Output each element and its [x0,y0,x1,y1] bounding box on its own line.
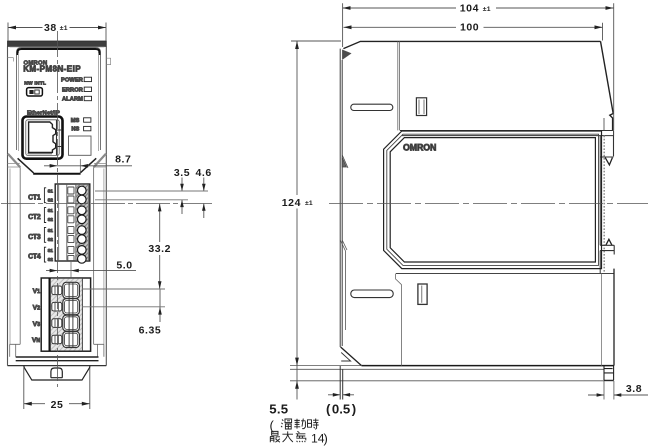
svg-text:5.0: 5.0 [116,259,132,271]
upper DIN slider slot [351,104,393,110]
RJ45 connector [23,117,63,159]
svg-text:100: 100 [460,22,479,34]
svg-text:±1: ±1 [305,200,313,207]
svg-text:CT1: CT1 [28,194,41,201]
svg-text:S1: S1 [48,228,54,233]
CT2 label [28,208,53,223]
side bottom edge [362,365,615,367]
door rim inner line [390,138,595,262]
svg-text:4.6: 4.6 [195,167,211,179]
svg-text:5.5: 5.5 [269,402,288,417]
svg-text:VN: VN [32,337,41,344]
dim 5.0 [46,259,136,278]
bottom ledge [396,273,614,275]
CT screw circles [78,186,87,263]
svg-text:8.7: 8.7 [115,153,131,165]
rear bottom clip tab [604,366,614,381]
svg-text:): ) [324,431,328,446]
front mid recess walls [10,167,104,344]
V terminal block [41,278,90,351]
svg-text:V3: V3 [33,321,41,328]
DIN rail long lines [290,369,614,381]
upper small vent rect [416,98,426,116]
sliding note text [270,418,328,446]
dim 4.6 [195,167,211,218]
side top edge with chamfer [342,41,600,59]
svg-text:NS: NS [71,127,79,133]
front bezel top edge [10,47,105,151]
dim 124 +-1 left of side view [282,41,362,366]
bottom tray [10,344,104,360]
svg-text:124: 124 [282,197,301,209]
hook2 bottom DIN hook [600,239,614,254]
svg-text:±1: ±1 [483,6,491,13]
front body side seam details [8,58,111,65]
door outer outline [384,131,602,269]
svg-text:POWER: POWER [61,78,83,84]
side front edge step detail lower [340,240,347,330]
SIDE-VIEW [290,41,648,381]
CT slot rows [68,187,74,261]
svg-text:V2: V2 [33,304,41,311]
svg-text:6.35: 6.35 [139,325,162,337]
top shelf ledge [400,131,614,136]
rear wall between hooks [599,157,601,245]
svg-text:S2: S2 [48,197,54,202]
lower seam line [396,274,402,366]
dim 25 bottom of front view [24,368,90,411]
svg-text:3.8: 3.8 [626,383,642,395]
svg-text:S2: S2 [48,217,54,222]
svg-text:MS: MS [71,118,80,124]
side front edge double line [340,49,342,347]
side upper seam line [398,41,400,130]
dim 6.35 [139,289,162,337]
dim 8.7 [44,153,132,174]
CT terminal block [55,184,90,261]
front vertical centerline [56,31,58,387]
DIN clip arch tab [51,368,62,378]
svg-text:KM-PM8N-EIP: KM-PM8N-EIP [23,65,81,74]
NW switch [27,88,43,96]
CT4 label [28,247,53,262]
dim 100 side view [344,22,603,41]
rail edge hidden line [603,136,605,273]
svg-text:ALARM: ALARM [62,97,83,103]
svg-text:ERROR: ERROR [62,87,83,93]
svg-text:NW INTL: NW INTL [24,81,46,87]
dim (0.5) [326,366,356,417]
side top-right slanted face [601,41,614,130]
CT1 label [28,188,53,203]
FRONT-VIEW [1,31,212,387]
lower DIN slider slot [351,290,393,298]
NS label and LED [71,126,91,132]
lower small vent rect [418,284,427,304]
ref lines for 3.5 4.6 [95,191,208,200]
blank square window [69,136,92,155]
svg-text:S1: S1 [48,208,54,213]
side front edge wedge detail upper [342,155,348,168]
svg-text:38: 38 [44,22,57,34]
svg-text:(0.5): (0.5) [326,402,356,417]
DIN foot trapezoid [24,366,90,380]
dim 104 +-1 side view [343,3,614,130]
front body outline [8,47,107,366]
svg-text:CT2: CT2 [28,214,41,221]
front top cap band [8,41,107,46]
side horizontal centerline [329,203,648,205]
svg-text:S2: S2 [48,237,54,242]
ERROR label and LED [62,87,92,93]
dim 33.2 [148,204,171,289]
svg-text:33.2: 33.2 [148,243,171,255]
dim 3.8 [588,381,648,400]
front bezel bottom trapezoid chamfers [8,154,107,174]
dim 5.5 [269,366,299,417]
lower rear wall [602,269,614,366]
svg-text:V1: V1 [33,288,41,295]
front horizontal centerline [1,203,212,205]
svg-text:(: ( [270,418,275,433]
door rim middle line [387,134,599,265]
ALARM label and LED [62,96,92,102]
svg-text:3.5: 3.5 [174,167,190,179]
svg-text:S1: S1 [48,188,54,193]
svg-text:CT4: CT4 [28,254,41,261]
rear wall above hook1 [603,118,605,130]
hook1 top DIN hook [600,136,613,165]
svg-text:25: 25 [51,399,64,411]
dim 3.5 [174,167,190,214]
dim 38 +-1 top of front view [8,22,106,41]
V screw rows [52,282,80,347]
MS label and LED [71,118,91,124]
rear wall below shelf [599,136,601,157]
side bottom-left chamfer [341,347,362,366]
svg-text:S1: S1 [48,248,54,253]
svg-text:104: 104 [460,3,479,15]
CT3 label [28,227,53,242]
svg-text:±1: ±1 [60,25,68,32]
svg-text:S2: S2 [48,257,54,262]
POWER label and LED [61,77,92,83]
svg-text:OMRON: OMRON [403,142,436,152]
svg-text:CT3: CT3 [28,234,41,241]
rear wall below hook2 [599,251,601,274]
ref lines for 33.2 and 6.35 [82,289,165,307]
